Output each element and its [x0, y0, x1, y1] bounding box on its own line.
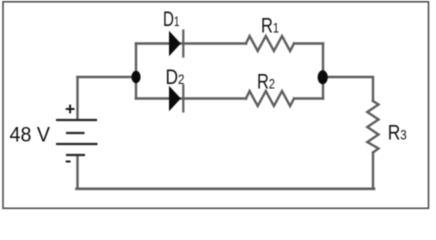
svg-text:R3: R3 — [388, 122, 407, 145]
svg-text:R1: R1 — [261, 15, 279, 38]
svg-text:D1: D1 — [163, 8, 180, 31]
svg-text:48 V: 48 V — [10, 123, 51, 146]
svg-text:R2: R2 — [257, 70, 275, 93]
svg-text:D2: D2 — [166, 66, 185, 89]
